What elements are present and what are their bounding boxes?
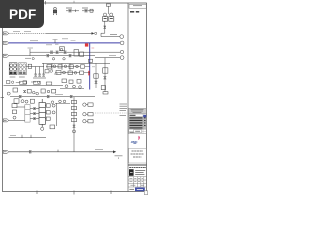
label above dashed pipe — [13, 30, 20, 32]
wire down from motor boxes — [104, 21, 106, 33]
pipe below mid cluster — [33, 77, 46, 79]
valve e row4 — [69, 55, 72, 57]
text beside dark logo — [135, 171, 145, 175]
drawing border frame — [3, 3, 147, 192]
long bottom pipe — [9, 151, 113, 153]
label above y96.5 — [55, 93, 63, 95]
off-page flag left low — [3, 119, 8, 122]
protruding box bottom right — [144, 191, 147, 195]
filler instruments left band — [7, 58, 59, 84]
dashed pipe row1 left — [9, 32, 46, 34]
pipe to right flag — [101, 36, 120, 38]
ladder column x74 — [73, 97, 75, 152]
grid labels — [10, 76, 16, 78]
end circles row1 — [95, 32, 97, 34]
pipe from flag to vessel — [9, 119, 25, 121]
blue drop pipe — [89, 43, 91, 90]
connector pipe grids — [26, 66, 44, 68]
red highlight dash on drop — [88, 71, 89, 76]
label above blue pipe 3 — [71, 40, 76, 42]
drop connectors from y63 line — [52, 63, 96, 88]
small circles row4 — [52, 58, 54, 60]
top flag — [106, 4, 110, 6]
drop wire right column — [104, 58, 106, 92]
label above row5 — [109, 54, 116, 56]
pipe row5 right — [95, 57, 120, 59]
gauge cluster x82-93 — [83, 103, 93, 123]
off-page flag row2 — [3, 41, 8, 44]
pipe row y96.5 — [10, 96, 95, 98]
tick with label row3 — [29, 49, 31, 56]
pipe row3 — [30, 51, 120, 53]
components under y85 — [7, 88, 56, 95]
centering tick bottom 2 — [73, 191, 75, 195]
tiny label right of drop — [92, 66, 95, 68]
bottom pipe end flag — [113, 150, 116, 153]
tick on bottom pipe — [57, 150, 59, 152]
vent assembly 1 — [66, 8, 79, 12]
motor boxes — [103, 17, 114, 22]
company logo dark square — [129, 169, 134, 176]
label above blue pipe 2 — [62, 38, 68, 40]
label below end — [115, 155, 123, 157]
tick on blue pipe — [54, 40, 56, 43]
pipe row y85 — [4, 84, 64, 86]
table text dashes — [129, 115, 145, 132]
valves on y96.5 — [19, 95, 21, 97]
mid cluster boxes y64-80 — [46, 65, 85, 75]
instrument box right col a — [103, 68, 108, 73]
centering tick bottom 1 — [36, 191, 38, 195]
title grid lines — [128, 177, 147, 187]
instrument cluster right of vessel — [41, 103, 57, 130]
bottom bar left dash — [129, 188, 134, 190]
label above y137.7 — [10, 134, 16, 136]
cluster under y96.5 — [14, 99, 70, 104]
blue pipe end flag — [120, 41, 124, 45]
control valve figure top — [53, 7, 56, 15]
wire down from top flag — [107, 6, 109, 14]
blue cell in table — [143, 115, 146, 118]
vessel column — [39, 99, 45, 127]
pipe row4 — [9, 55, 95, 57]
dotted line to title column — [95, 112, 128, 114]
svg-text:PDF: PDF — [9, 7, 36, 22]
drop wires mid cluster — [35, 67, 37, 75]
label box a above y85 — [20, 81, 52, 85]
logo red mark — [138, 136, 140, 140]
tiny text rows near title column — [120, 104, 128, 115]
centering tick left mid — [1, 97, 5, 99]
lower block top text row — [129, 166, 146, 168]
valve b row3 — [56, 51, 59, 53]
lower mid boxes row — [60, 59, 98, 88]
flag circle row5 — [120, 56, 124, 60]
flag right col bottom — [103, 92, 108, 94]
pipe row1 right solid — [46, 32, 92, 34]
flag circle row3 — [120, 50, 123, 53]
small connectors to blue drop — [85, 66, 90, 68]
off-page flag row1 — [3, 32, 8, 35]
instrument box mid1 — [60, 47, 65, 51]
instrument box mid2 — [74, 50, 79, 56]
boxes left of vessel — [12, 104, 17, 120]
revision table — [129, 114, 147, 134]
valve on drop wire — [104, 26, 106, 28]
page background — [0, 0, 149, 198]
instrument box right col b — [101, 86, 105, 90]
centering tick bottom 3 — [110, 191, 112, 195]
pipe row6 — [42, 62, 110, 64]
label above pipe — [110, 34, 117, 36]
valve right col — [104, 77, 107, 79]
off-page flag bottom — [3, 150, 8, 153]
header gray band — [129, 108, 147, 114]
valve c row3 — [64, 51, 67, 53]
gauge circle row3 — [60, 48, 63, 51]
arrowhead row1 — [92, 32, 95, 35]
branch pipes between columns — [17, 107, 39, 120]
grid cell dashes — [129, 178, 144, 185]
ticks on y137.7 — [21, 135, 23, 138]
notes text line — [130, 11, 139, 13]
red highlight block — [85, 43, 88, 46]
white box in table — [134, 130, 142, 133]
drum narrow column — [25, 105, 30, 122]
instrument grid 1 — [9, 63, 17, 75]
valve on bottom pipe — [29, 151, 31, 153]
centering tick top 2 — [73, 1, 75, 3]
bottom blue cell — [135, 188, 145, 192]
flag circle right top — [120, 35, 124, 39]
instrument box mid3 — [80, 52, 84, 56]
white info box — [129, 148, 147, 163]
blue pipe main — [9, 42, 121, 44]
notes header box top-right — [129, 4, 146, 8]
valves mid cluster — [34, 74, 36, 76]
off-page flag row4 — [3, 54, 8, 57]
valve a row3 — [50, 51, 53, 53]
title block divider line — [127, 3, 129, 192]
small box on connector — [28, 64, 31, 68]
elbow joining drop wire to pipe — [101, 32, 105, 34]
label above blue pipe — [30, 40, 38, 42]
vent assembly 2 — [82, 8, 94, 12]
divider double line — [128, 163, 147, 165]
valve d row4 — [47, 55, 50, 57]
ladder boxes — [71, 100, 76, 132]
motor circles — [103, 13, 112, 16]
pipe row y137.7 — [9, 137, 46, 139]
PDF badge — [0, 0, 44, 28]
centering tick top 1 — [45, 1, 47, 5]
label dashes above row3 — [46, 44, 52, 46]
faint pink label — [92, 47, 95, 49]
instrument grid 2 — [19, 63, 27, 75]
